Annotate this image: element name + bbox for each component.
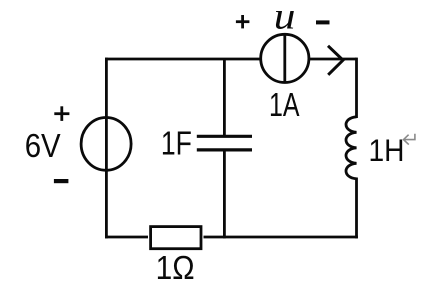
- polarity + (left of u): [236, 15, 250, 28]
- capacitor branch wire lower: [223, 150, 226, 239]
- svg-text:1H: 1H: [369, 132, 405, 168]
- paragraph return mark: [404, 134, 415, 145]
- wire bottom right segment: [204, 236, 358, 239]
- capacitor branch wire upper: [223, 59, 226, 136]
- wire right side lower: [355, 178, 358, 239]
- current direction arrow: [328, 46, 343, 75]
- polarity minus (right of u): [316, 20, 330, 24]
- wire top-left segment: [105, 58, 261, 61]
- svg-text:1Ω: 1Ω: [156, 249, 195, 286]
- polarity minus (below 6V): [54, 179, 69, 183]
- current source 1A: [261, 34, 309, 82]
- wire top-right segment: [309, 58, 357, 61]
- wire left side: [105, 58, 108, 239]
- svg-text:1A: 1A: [269, 86, 300, 123]
- inductor 1H: [346, 117, 357, 179]
- capacitor 1F: [197, 136, 252, 150]
- polarity + (above 6V): [54, 106, 69, 121]
- voltage source 6V: [81, 117, 131, 170]
- svg-text:6V: 6V: [25, 127, 61, 164]
- wire right side upper: [355, 58, 358, 118]
- svg-text:u: u: [274, 0, 296, 37]
- wire bottom left segment: [105, 236, 148, 239]
- resistor 1&#937;: [151, 227, 201, 249]
- svg-text:1F: 1F: [161, 125, 192, 162]
